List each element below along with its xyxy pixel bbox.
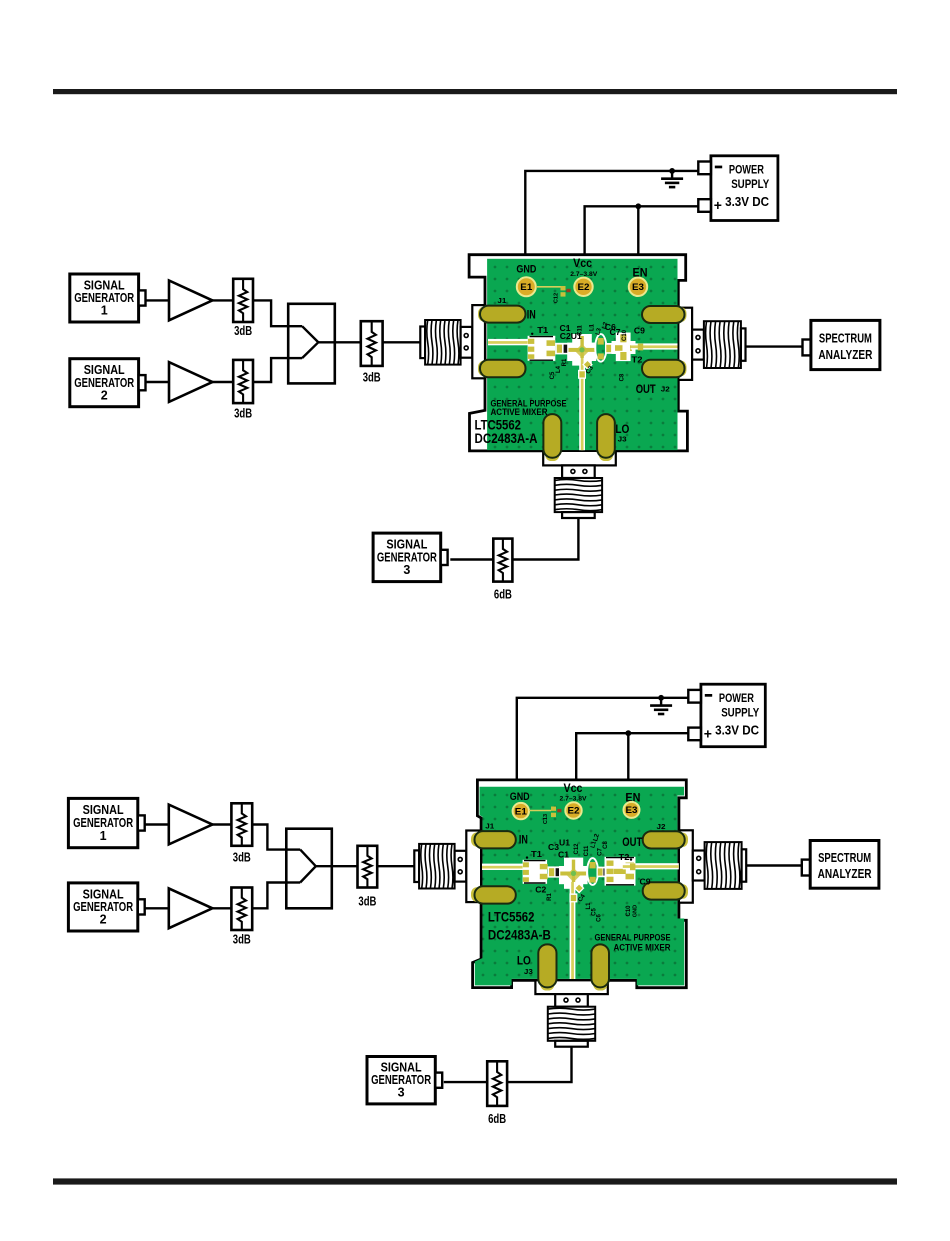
svg-text:C5: C5: [550, 371, 556, 379]
svg-text:C7: C7: [610, 328, 622, 337]
PCB A J1 input pad upper: [480, 306, 526, 323]
svg-text:J2: J2: [657, 824, 666, 831]
power supply box PS-A: [711, 156, 778, 221]
svg-text:ACTIVE MIXER: ACTIVE MIXER: [614, 943, 671, 953]
PCB A output pad upper: [642, 306, 685, 323]
svg-text:GENERATOR: GENERATOR: [73, 816, 133, 830]
attenuator 3dB shunt resistor zigzag: [239, 360, 247, 403]
signal generator 2 box: [68, 883, 137, 931]
svg-text:C11: C11: [578, 325, 584, 336]
combiner output arm: [316, 865, 332, 867]
combiner merge chevron: [300, 850, 316, 883]
PCB B pad blob on bottom tab left: [540, 979, 554, 991]
svg-text:3dB: 3dB: [234, 405, 252, 420]
signal generator 3 output connector stub: [435, 1073, 442, 1088]
SMA coaxial connector J1 (IN) mounting flange: [461, 327, 473, 358]
power supply positive terminal stub: [688, 728, 701, 741]
signal generator 2 output connector stub: [139, 375, 146, 390]
svg-text:POWER: POWER: [729, 165, 765, 177]
SMA coaxial connector J1 (IN) rear collar: [420, 327, 425, 359]
PCB A left SMA mounting tab: [472, 305, 485, 378]
PCB B bottom SMA mounting tab: [535, 980, 607, 994]
wire junction down to PCB A EN: [637, 206, 639, 254]
svg-text:GND: GND: [633, 905, 639, 917]
PCB A input microstrip trace: [488, 339, 529, 345]
svg-text:C11: C11: [584, 845, 590, 856]
svg-text:ACTIVE MIXER: ACTIVE MIXER: [491, 407, 548, 417]
svg-text:LO: LO: [615, 422, 629, 436]
junction dot on Vcc wire A: [635, 203, 641, 209]
svg-text:LTC5562: LTC5562: [488, 910, 535, 925]
PCB B right SMA mounting tab: [679, 830, 693, 902]
svg-text:POWER: POWER: [719, 693, 755, 705]
attenuator 3dB shunt resistor zigzag: [239, 279, 247, 322]
SMA connector J2 (OUT) collar holes: [696, 335, 700, 339]
PCB B output microstrip trace: [623, 863, 679, 869]
svg-text:3dB: 3dB: [363, 369, 381, 384]
signal generator 1 box: [70, 274, 139, 322]
wire AT2 to combiner lower input (B): [252, 883, 286, 909]
svg-text:2: 2: [100, 913, 107, 927]
PCB A J2 output pad lower: [642, 360, 685, 378]
demo board DC2483A-B PCB outline: [473, 780, 687, 988]
wire SG1 to amplifier A1: [146, 299, 170, 301]
power supply negative terminal stub: [698, 162, 711, 175]
wire LO SMA down and left to 6dB attenuator B: [507, 1047, 571, 1083]
signal generator 3 box: [373, 533, 441, 582]
spectrum analyzer input stub A: [803, 340, 811, 356]
svg-text:3: 3: [398, 1086, 405, 1100]
PCB A pads right of U1: [605, 343, 617, 354]
wire PCB B Vcc to power supply plus: [576, 733, 688, 779]
signal generator 1 output connector stub: [139, 290, 146, 305]
svg-text:E2: E2: [578, 282, 590, 293]
SMA coaxial connector J1 (IN) B mounting flange: [455, 851, 467, 882]
power supply labels: [715, 166, 722, 169]
svg-text:IN: IN: [519, 835, 528, 847]
svg-text:SUPPLY: SUPPLY: [721, 708, 759, 720]
svg-text:3.3V DC: 3.3V DC: [725, 195, 769, 209]
attenuator 6dB shunt resistor zigzag: [493, 1061, 501, 1106]
signal generator 2 output connector stub: [138, 899, 145, 914]
PCB B capacitor C13 pads: [551, 807, 556, 811]
svg-text:SPECTRUM: SPECTRUM: [819, 332, 872, 346]
combiner input arm 2: [286, 881, 300, 883]
svg-text:E3: E3: [626, 805, 638, 816]
SMA coaxial connector J2 (OUT) threaded barrel: [704, 321, 741, 368]
amplifier A1: [169, 281, 212, 321]
SMA coaxial connector J2 (OUT) B threaded barrel: [705, 842, 742, 889]
svg-text:E1: E1: [520, 282, 533, 293]
SMA connector J3 (LO) B collar holes: [564, 998, 568, 1002]
svg-text:3dB: 3dB: [358, 894, 376, 909]
SMA connector J1 (IN) flange holes: [464, 334, 468, 338]
PCB B left SMA mounting tab: [466, 831, 481, 903]
PCB B transformer T2 footprint: [605, 857, 636, 886]
svg-text:U1: U1: [559, 838, 570, 848]
wire AT3 to IN SMA connector: [383, 341, 421, 343]
svg-text:C9: C9: [634, 326, 645, 336]
wire combiner to attenuator AT3 (B): [332, 865, 358, 867]
bottom rule bar: [53, 1178, 897, 1184]
wire A1 to attenuator AT1: [212, 299, 233, 301]
PCB A J3 LO pad right: [597, 414, 615, 458]
PCB B via dots grid: [475, 787, 684, 986]
attenuator 6dB pad AT4 box: [493, 539, 512, 582]
PCB B J2 output pad lower: [643, 882, 685, 899]
wire A2 to attenuator AT2 (B): [212, 907, 231, 909]
wire LO SMA down and left to 6dB attenuator A: [512, 518, 578, 560]
wire SG2 to amplifier A2 (B): [145, 907, 169, 909]
PCB B input microstrip trace: [482, 864, 523, 870]
svg-text:C8: C8: [619, 373, 625, 381]
junction dot on Vcc wire B: [625, 730, 631, 736]
amplifier A2: [169, 362, 212, 402]
wire OUT SMA to spectrum analyzer B: [746, 864, 802, 866]
attenuator 3dB pad AT7 box: [358, 846, 378, 888]
attenuator 3dB shunt resistor zigzag: [368, 321, 376, 366]
svg-text:GND: GND: [510, 791, 530, 803]
power combiner box: [288, 304, 335, 384]
SMA connector J1 (IN) B flange holes: [458, 857, 462, 861]
amplifier A2b: [169, 888, 213, 928]
svg-text:Vcc: Vcc: [564, 783, 584, 795]
svg-text:Vcc: Vcc: [573, 258, 593, 270]
PCB A pad blob on left tab upper: [478, 307, 489, 322]
attenuator 3dB shunt resistor zigzag: [238, 803, 246, 846]
svg-text:LO: LO: [517, 954, 531, 968]
svg-text:J1: J1: [497, 298, 506, 305]
wire PCB B GND to power supply minus: [517, 698, 689, 780]
SMA coaxial connector J3 (LO) B threaded barrel: [548, 1007, 595, 1041]
attenuator 3dB shunt resistor zigzag: [363, 846, 371, 888]
demo board DC2483A-A PCB outline: [469, 255, 687, 451]
svg-text:+: +: [714, 197, 722, 213]
svg-text:C1: C1: [558, 850, 569, 860]
SMA coaxial connector J3 (LO) B end collar: [555, 1041, 588, 1047]
combiner input arm 1: [288, 325, 302, 327]
attenuator 3dB shunt resistor zigzag: [238, 888, 246, 931]
PCB A pad blob on left tab lower: [478, 361, 489, 376]
svg-text:R1: R1: [547, 893, 553, 901]
svg-text:LTC5562: LTC5562: [475, 417, 522, 432]
wire AT2 to combiner lower input: [253, 358, 288, 382]
signal generator 1 box: [68, 798, 137, 847]
PCB B pad blob on bottom tab right: [593, 979, 607, 991]
svg-text:E3: E3: [632, 282, 644, 293]
PCB B LO microstrip trace vertical: [570, 882, 576, 979]
PCB B mixer U1 footprint cross: [564, 858, 583, 889]
PCB A green soldermask: [487, 259, 677, 450]
spectrum analyzer input stub B: [802, 860, 810, 876]
svg-text:6dB: 6dB: [494, 586, 512, 601]
svg-text:J1: J1: [485, 823, 494, 830]
earth ground symbol: [671, 171, 673, 178]
svg-text:C2: C2: [535, 885, 546, 895]
svg-text:SPECTRUM: SPECTRUM: [818, 851, 871, 865]
PCB B pad blob on right tab lower: [678, 884, 688, 899]
power supply labels: [705, 694, 712, 697]
PCB A capacitor C12 pads: [561, 286, 566, 290]
svg-text:SUPPLY: SUPPLY: [731, 179, 769, 191]
PCB A trace from E1 to C12: [536, 286, 561, 288]
svg-text:J3: J3: [618, 437, 627, 444]
PCB B trace from E1 to C13: [529, 810, 551, 812]
PCB A via dots grid: [487, 259, 677, 450]
svg-text:3.3V DC: 3.3V DC: [715, 724, 759, 738]
signal generator 2 box: [70, 359, 139, 407]
spectrum analyzer box B: [810, 841, 879, 889]
svg-text:DC2483A-A: DC2483A-A: [475, 431, 538, 446]
SMA coaxial connector J3 (LO) B mounting collar: [555, 994, 588, 1007]
PCB A input pad lower: [480, 360, 526, 378]
PCB A bottom SMA mounting tab: [543, 451, 616, 466]
attenuator 6dB pad AT8 box: [487, 1061, 507, 1106]
attenuator 3dB pad AT3 box: [361, 321, 383, 366]
spectrum analyzer box A: [811, 320, 880, 369]
power combiner box: [286, 829, 332, 909]
PCB B green soldermask: [475, 787, 684, 986]
combiner merge chevron: [302, 326, 318, 358]
PCB A pads below U1: [582, 359, 593, 370]
PCB A mid pads between T1 and U1: [555, 343, 595, 355]
PCB B transformer T1 footprint: [523, 860, 548, 884]
SMA connector J2 (OUT) B collar holes: [697, 856, 701, 860]
SMA coaxial connector J2 (OUT) end collar: [741, 328, 746, 360]
svg-text:3dB: 3dB: [233, 850, 251, 865]
svg-text:1: 1: [100, 829, 107, 843]
svg-text:E1: E1: [515, 806, 528, 817]
SMA coaxial connector J2 (OUT) mounting collar: [692, 330, 704, 360]
PCB A right SMA mounting tab: [678, 308, 692, 380]
wire SG3 to 6dB attenuator A: [450, 558, 493, 560]
svg-text:OUT: OUT: [636, 382, 657, 396]
attenuator 6dB shunt resistor zigzag: [499, 539, 507, 582]
PCB A output microstrip trace: [631, 343, 678, 349]
attenuator 3dB pad AT6 box: [231, 888, 252, 931]
svg-text:2: 2: [101, 388, 108, 402]
svg-text:T2: T2: [632, 355, 643, 365]
PCB A transformer T2 footprint: [616, 333, 631, 362]
svg-text:C12: C12: [554, 293, 560, 303]
SMA coaxial connector J3 (LO) mounting collar: [562, 465, 595, 478]
svg-text:C9: C9: [640, 877, 651, 887]
wire PCB A GND to power supply minus: [525, 171, 698, 254]
svg-text:ANALYZER: ANALYZER: [818, 348, 872, 362]
attenuator 3dB pad AT5 box: [231, 803, 252, 846]
svg-text:DC2483A-B: DC2483A-B: [488, 928, 551, 943]
amplifier A1b: [169, 805, 213, 845]
junction dot on GND wire A: [669, 168, 675, 174]
PCB A inductor L3 oval footprint: [595, 334, 606, 362]
svg-text:C10: C10: [622, 329, 628, 341]
svg-text:ANALYZER: ANALYZER: [818, 867, 872, 881]
PCB B pad blob on left tab upper: [471, 833, 482, 847]
power supply negative terminal stub: [688, 690, 701, 703]
PCB B mid pads between T1 and U1: [548, 866, 584, 877]
PCB B J3 LO pad right: [591, 944, 609, 987]
svg-text:+: +: [704, 725, 712, 741]
top rule bar: [53, 89, 897, 94]
junction dot on GND wire B: [658, 695, 664, 701]
PCB A LO microstrip trace vertical: [579, 358, 585, 450]
svg-text:L1: L1: [590, 323, 596, 331]
svg-text:T1: T1: [531, 849, 542, 859]
signal generator 3 box: [367, 1057, 435, 1104]
svg-text:L4: L4: [556, 365, 562, 373]
PCB B LO pad left: [538, 944, 556, 987]
combiner input arm 2: [288, 357, 302, 359]
svg-text:T2: T2: [619, 852, 630, 862]
SMA coaxial connector J1 (IN) threaded barrel: [425, 320, 461, 365]
wire PCB A Vcc to power supply plus: [585, 206, 699, 254]
combiner output arm: [318, 341, 335, 343]
attenuator 3dB pad AT2 box: [233, 360, 253, 403]
combiner input arm 1: [286, 848, 300, 850]
wire AT1 to combiner upper input (B): [252, 825, 286, 850]
wire AT3 to IN SMA connector (B): [377, 865, 414, 867]
wire SG1 to amplifier A1 (B): [145, 823, 169, 825]
SMA coaxial connector J1 (IN) B threaded barrel: [419, 844, 455, 889]
earth ground symbol: [660, 698, 662, 705]
svg-text:C12: C12: [574, 843, 580, 855]
wire SG2 to amplifier A2: [146, 381, 170, 383]
svg-text:J3: J3: [524, 969, 533, 976]
svg-text:J2: J2: [661, 387, 670, 394]
svg-text:C8: C8: [603, 841, 609, 849]
svg-text:1: 1: [101, 304, 108, 318]
PCB B output pad upper: [643, 831, 685, 848]
svg-text:E2: E2: [568, 806, 580, 817]
svg-text:GENERAL PURPOSE: GENERAL PURPOSE: [595, 933, 671, 943]
svg-text:6dB: 6dB: [488, 1111, 506, 1126]
svg-text:GND: GND: [516, 263, 536, 275]
PCB B pad blob on right tab upper: [678, 833, 688, 847]
PCB B input pad lower: [475, 886, 516, 903]
svg-text:3dB: 3dB: [233, 932, 251, 947]
svg-text:SIGNAL: SIGNAL: [386, 538, 427, 552]
PCB B pads below U1: [574, 883, 585, 894]
svg-text:3dB: 3dB: [234, 323, 252, 338]
PCB B inductor L3 oval footprint: [587, 858, 598, 885]
PCB A pad blob on right tab lower: [677, 361, 687, 376]
PCB B pads right of U1: [597, 867, 609, 878]
PCB B pad blob on left tab lower: [471, 887, 482, 902]
svg-text:C10: C10: [626, 905, 632, 917]
SMA coaxial connector J3 (LO) threaded barrel: [555, 478, 602, 512]
svg-text:R1: R1: [562, 358, 568, 366]
PCB A pad blob on right tab upper: [677, 307, 687, 322]
power supply positive terminal stub: [698, 199, 711, 212]
svg-text:IN: IN: [527, 309, 536, 321]
SMA connector J3 (LO) collar holes: [571, 469, 575, 473]
signal generator 1 output connector stub: [138, 815, 145, 830]
PCB A mixer U1 footprint cross: [572, 334, 592, 366]
wire OUT SMA to spectrum analyzer A: [746, 345, 803, 347]
svg-text:T1: T1: [537, 325, 548, 335]
wire AT1 to combiner upper input: [253, 300, 288, 326]
wire A1 to attenuator AT1 (B): [212, 823, 231, 825]
PCB B J1 input pad upper: [475, 831, 516, 848]
signal generator 3 output connector stub: [441, 550, 448, 565]
PCB A transformer T1 footprint: [528, 336, 556, 361]
svg-text:OUT: OUT: [622, 835, 643, 849]
svg-text:3: 3: [403, 563, 410, 577]
PCB A pad blob on bottom tab left: [545, 450, 559, 462]
wire junction down to PCB B EN: [627, 733, 629, 779]
SMA coaxial connector J2 (OUT) B end collar: [742, 849, 747, 881]
svg-text:SIGNAL: SIGNAL: [83, 803, 124, 817]
wire combiner to attenuator AT3: [335, 341, 361, 343]
wire A2 to attenuator AT2: [212, 381, 233, 383]
svg-text:C6: C6: [597, 914, 603, 922]
svg-text:C13: C13: [543, 814, 549, 824]
PCB A LO pad left: [543, 414, 561, 458]
wire SG3 to 6dB attenuator B: [444, 1081, 487, 1083]
SMA coaxial connector J3 (LO) end collar: [562, 512, 595, 518]
PCB A pad blob on bottom tab right: [599, 450, 613, 462]
attenuator 3dB pad AT1 box: [233, 279, 253, 322]
SMA coaxial connector J1 (IN) B rear collar: [414, 850, 419, 882]
SMA coaxial connector J2 (OUT) B mounting collar: [693, 851, 705, 881]
power supply box PS-B: [701, 684, 765, 747]
